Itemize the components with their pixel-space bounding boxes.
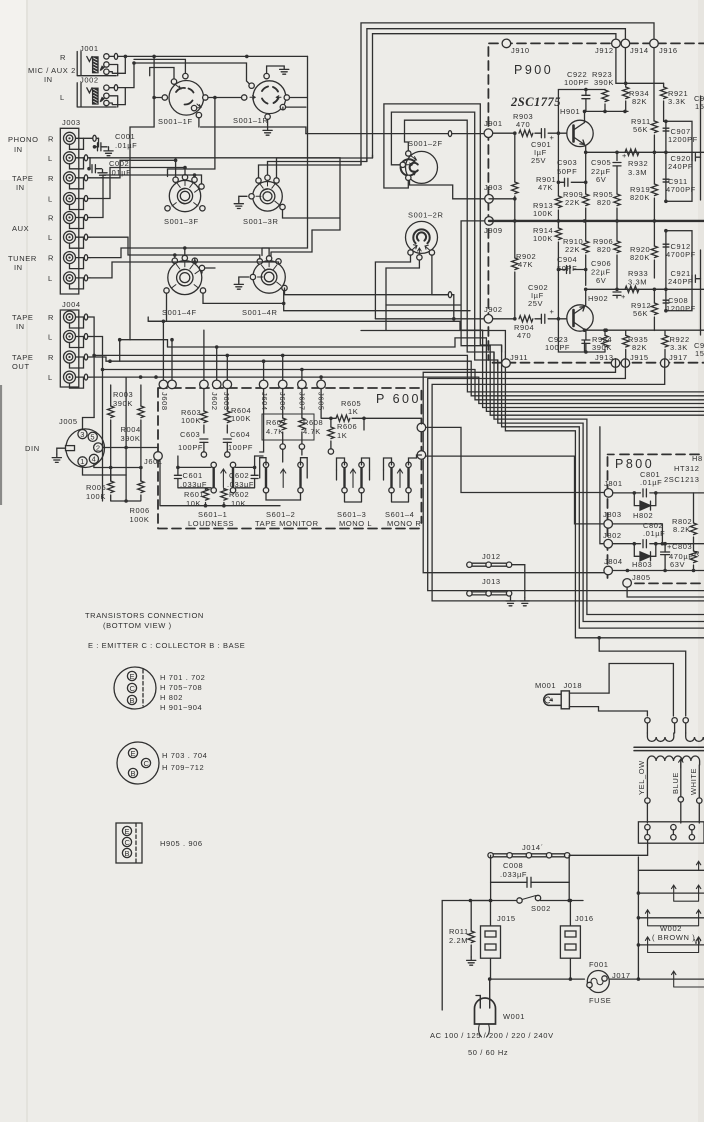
capacitor C802 bbox=[643, 540, 646, 548]
ground J012 bbox=[520, 598, 529, 606]
wire drop bbox=[320, 377, 322, 380]
wire bbox=[95, 138, 99, 147]
wire 1F bottom to J901 run bbox=[199, 107, 306, 134]
legend flat pin E bbox=[122, 826, 131, 835]
terminal P600 right lower bbox=[417, 451, 426, 460]
wire bbox=[178, 456, 263, 467]
J013 pin bbox=[467, 591, 472, 596]
S001-3R contact bbox=[256, 178, 261, 183]
jack J002 tip contact bbox=[104, 85, 109, 90]
wire J914 loop bbox=[367, 29, 626, 162]
jack contact oval bbox=[93, 135, 96, 141]
svg-text:S601–3: S601–3 bbox=[337, 510, 366, 519]
svg-text:5: 5 bbox=[90, 433, 95, 442]
wire 4R to ground bbox=[239, 277, 249, 281]
wire DIN pin1 bbox=[83, 466, 127, 475]
wire selector to J014 bbox=[569, 840, 647, 855]
svg-text:1200PF: 1200PF bbox=[666, 304, 696, 313]
svg-text:100K: 100K bbox=[231, 414, 251, 423]
wire bbox=[282, 432, 284, 444]
junction bbox=[176, 466, 180, 470]
junction bbox=[281, 354, 285, 358]
fuse contact bbox=[587, 982, 592, 987]
wire collector node bbox=[585, 111, 629, 122]
svg-text:H905 . 906: H905 . 906 bbox=[160, 839, 203, 848]
wire bbox=[535, 132, 541, 134]
wire drop to J608 bbox=[162, 321, 164, 380]
junction bbox=[597, 636, 601, 640]
svg-text:B: B bbox=[125, 849, 131, 858]
contact bbox=[192, 177, 197, 182]
switch wafer S601-2 a bbox=[265, 467, 267, 487]
svg-text:50PF: 50PF bbox=[557, 167, 577, 176]
svg-text:H 802: H 802 bbox=[160, 693, 183, 702]
wire bbox=[616, 166, 618, 194]
jack contact oval bbox=[84, 275, 87, 281]
S001-4F contact bbox=[172, 258, 177, 263]
wire strap row 1 bbox=[638, 869, 704, 871]
svg-text:BLUE: BLUE bbox=[671, 772, 680, 794]
terminal J911 bbox=[502, 359, 511, 368]
legend pin B bbox=[127, 695, 136, 704]
resistor R913 bbox=[555, 196, 561, 208]
connector J005 DIN circle bbox=[66, 429, 105, 468]
wire S001-2R mid bbox=[361, 260, 505, 352]
wire R006 leads bbox=[140, 468, 142, 501]
wire DIN pin2 to J601 bbox=[103, 447, 158, 449]
svg-text:TRANSISTORS CONNECTION: TRANSISTORS CONNECTION bbox=[85, 611, 204, 620]
capacitor C604 bbox=[223, 439, 231, 442]
svg-text:820: 820 bbox=[597, 245, 611, 254]
capacitor C001 bbox=[98, 143, 101, 151]
svg-text:L: L bbox=[48, 274, 53, 283]
junction bbox=[170, 338, 174, 342]
svg-text:E : EMITTER C : COLLECTOR: E : EMITTER C : COLLECTOR B : BASE bbox=[88, 641, 245, 650]
junction bbox=[93, 145, 97, 149]
S001-3F wiper arrows bbox=[172, 181, 199, 207]
wire bbox=[108, 146, 110, 149]
svg-text:3: 3 bbox=[80, 430, 85, 439]
capacitor C911 (on box left edge) bbox=[663, 179, 670, 180]
svg-text:2SC1213: 2SC1213 bbox=[664, 475, 699, 484]
wire drop bbox=[203, 330, 205, 380]
terminal J917 bbox=[660, 359, 669, 368]
resistor R602 bbox=[221, 489, 227, 501]
wire bbox=[585, 90, 587, 112]
svg-text:P900: P900 bbox=[514, 63, 553, 77]
svg-text:J912: J912 bbox=[595, 46, 614, 55]
wire bbox=[203, 442, 205, 452]
capacitor C901 bbox=[541, 129, 544, 138]
wire drop bbox=[171, 340, 173, 380]
contact bbox=[266, 256, 271, 261]
ground at C002 bbox=[98, 169, 107, 177]
svg-text:TAPE: TAPE bbox=[12, 174, 33, 183]
junction bbox=[664, 120, 668, 124]
S001-3F contact bbox=[173, 177, 178, 182]
svg-text:J804: J804 bbox=[604, 557, 623, 566]
wire bbox=[301, 388, 303, 418]
resistor R905 bbox=[614, 194, 620, 206]
svg-text:H902: H902 bbox=[588, 294, 608, 303]
RCA jack J003-1 bbox=[64, 132, 76, 144]
fuse F001 bbox=[587, 971, 609, 993]
RCA jack J003-7 bbox=[64, 252, 76, 264]
S001-2R contact bbox=[408, 250, 413, 255]
svg-text:82K: 82K bbox=[632, 97, 647, 106]
svg-text:J602: J602 bbox=[210, 392, 219, 411]
S001-2R wiper arrows bbox=[412, 245, 430, 254]
wire J801 bbox=[613, 492, 641, 494]
resistor R904 bbox=[519, 316, 533, 322]
wire emitter up bbox=[585, 289, 587, 306]
junction bbox=[193, 173, 197, 177]
wire jack ground arm bbox=[70, 357, 84, 368]
wire jack ground arm bbox=[70, 178, 84, 189]
wire S001-2R left bbox=[375, 255, 410, 319]
ground at S001-4R bbox=[234, 281, 243, 289]
wire bbox=[625, 330, 627, 358]
wire bus line bbox=[483, 330, 704, 407]
transformer core bbox=[634, 747, 704, 750]
wire bbox=[89, 158, 90, 169]
junction bbox=[300, 368, 304, 372]
svg-text:J015: J015 bbox=[497, 914, 516, 923]
wire bbox=[646, 830, 648, 835]
wire bbox=[470, 900, 516, 902]
wire J901 run bbox=[306, 133, 489, 135]
wire bus line to lower right bbox=[502, 345, 704, 628]
wire down to 3F bbox=[168, 98, 215, 177]
junction bbox=[162, 320, 166, 324]
wire bbox=[616, 221, 618, 289]
terminal J902 bbox=[484, 315, 493, 324]
wire J002 to S001-1R bbox=[118, 63, 250, 88]
wire jack stub bbox=[76, 336, 90, 338]
wire strap row 4 bbox=[638, 944, 704, 946]
jack contact oval bbox=[84, 234, 87, 240]
junction bbox=[108, 359, 112, 363]
svg-text:J913: J913 bbox=[595, 353, 614, 362]
svg-text:4: 4 bbox=[92, 455, 97, 464]
wire bbox=[664, 330, 666, 358]
wire DIN to ground bbox=[57, 448, 66, 454]
svg-text:LOUDNESS: LOUDNESS bbox=[188, 519, 234, 528]
wire J803 bbox=[613, 524, 663, 544]
legend pin E bbox=[128, 748, 137, 757]
resistor R903 bbox=[519, 130, 533, 136]
wire J902 run bbox=[375, 318, 488, 320]
capacitor C923 bbox=[582, 340, 590, 343]
wire jack stub bbox=[76, 277, 90, 279]
jack J001 contact bbox=[104, 62, 109, 67]
connector J013 bbox=[472, 592, 508, 595]
wire bbox=[664, 544, 666, 571]
wire bbox=[125, 448, 127, 502]
svg-text:R004: R004 bbox=[121, 425, 141, 434]
oval on J901 wire bbox=[448, 131, 451, 137]
wire bbox=[625, 101, 627, 111]
resistor R934 bbox=[623, 87, 629, 99]
junction bbox=[489, 899, 493, 903]
contact bbox=[199, 265, 204, 270]
plug cord bbox=[479, 1024, 490, 1037]
svg-text:J915: J915 bbox=[630, 353, 649, 362]
wire S001-2R right bbox=[432, 255, 447, 295]
svg-text:50 / 60 Hz: 50 / 60 Hz bbox=[468, 1048, 508, 1057]
terminal P600 top bbox=[159, 380, 168, 389]
wire bus line to lower right bbox=[498, 360, 704, 622]
wire into selector bbox=[647, 802, 699, 823]
selector contact bottom bbox=[671, 835, 676, 840]
svg-text:L: L bbox=[48, 195, 53, 204]
junction bbox=[557, 317, 561, 321]
wire J802 bbox=[613, 543, 641, 545]
wire to J803 bbox=[426, 456, 604, 524]
svg-text:J803: J803 bbox=[603, 510, 622, 519]
wire bbox=[493, 132, 513, 134]
wire jack ground arm bbox=[70, 337, 84, 348]
svg-text:47K: 47K bbox=[518, 260, 533, 269]
wire bbox=[321, 388, 336, 418]
junction bbox=[118, 338, 122, 342]
switch wafer S601-4 a bbox=[390, 467, 392, 487]
wire selector left vertical bbox=[637, 857, 639, 979]
wire to 3F corner contact bbox=[195, 175, 202, 184]
junction bbox=[329, 417, 333, 421]
wire bus line bbox=[479, 377, 704, 403]
wire lamp leads bbox=[569, 693, 647, 716]
svg-text:25V: 25V bbox=[528, 299, 543, 308]
svg-text:22K: 22K bbox=[565, 198, 580, 207]
P900 dashed bottom bbox=[493, 362, 704, 364]
wire output bottom bbox=[617, 288, 704, 290]
junction bbox=[124, 55, 128, 59]
contact bbox=[200, 288, 205, 293]
svg-text:390K: 390K bbox=[594, 78, 614, 87]
wire bbox=[558, 269, 566, 271]
wire base up to C904 bbox=[557, 270, 559, 319]
connector J004 outline bbox=[60, 310, 79, 387]
RCA jack J003-2 bbox=[64, 152, 76, 164]
resistor R914 bbox=[555, 228, 561, 240]
S601-3 arrow bbox=[350, 469, 355, 488]
terminal yellow bbox=[645, 798, 650, 803]
junction bbox=[637, 943, 641, 947]
svg-text:J802: J802 bbox=[603, 531, 622, 540]
terminal J914 bbox=[621, 39, 630, 48]
terminal J910 bbox=[502, 39, 511, 48]
wire bbox=[330, 418, 332, 449]
terminal J802 bbox=[604, 539, 613, 548]
capacitor C905 bbox=[613, 163, 621, 166]
junction bbox=[132, 61, 136, 65]
svg-text:FUSE: FUSE bbox=[589, 996, 611, 1005]
svg-text:4700PF: 4700PF bbox=[666, 185, 696, 194]
capacitor C803 electrolytic bbox=[661, 552, 670, 555]
svg-text:P 600: P 600 bbox=[376, 392, 421, 406]
wire TAPE OUT R run bbox=[90, 357, 471, 361]
wire bbox=[585, 221, 587, 286]
wire 1F TL contact bbox=[150, 68, 174, 79]
svg-text:15: 15 bbox=[695, 102, 704, 111]
svg-text:100K: 100K bbox=[533, 209, 553, 218]
svg-text:J917: J917 bbox=[669, 353, 688, 362]
wire bbox=[470, 945, 472, 957]
resistor R606 bbox=[328, 427, 334, 439]
rotary switch S001-1R bbox=[253, 81, 286, 114]
wire S601-4 hooks bbox=[384, 455, 422, 470]
rotary switch S001-3F bbox=[169, 180, 200, 211]
wire R005 leads bbox=[110, 468, 112, 501]
svg-text:10K: 10K bbox=[231, 499, 246, 508]
svg-text:J014´: J014´ bbox=[522, 843, 544, 852]
jack contact oval bbox=[84, 255, 87, 261]
terminal J606 bbox=[278, 380, 287, 389]
svg-text:R: R bbox=[48, 134, 54, 143]
jack J002 switch arm bbox=[100, 98, 104, 102]
svg-text:390K: 390K bbox=[113, 399, 133, 408]
contact bbox=[276, 259, 281, 264]
svg-text:J002: J002 bbox=[80, 75, 99, 84]
resistor R802 bbox=[690, 523, 696, 535]
svg-text:J901: J901 bbox=[484, 119, 503, 128]
junction bbox=[215, 345, 219, 349]
box around R607/R608 bbox=[262, 414, 314, 440]
svg-text:C904: C904 bbox=[557, 255, 577, 264]
svg-text:S001–1F: S001–1F bbox=[158, 117, 193, 126]
svg-text:MONO L: MONO L bbox=[339, 519, 372, 528]
junction bbox=[637, 977, 641, 981]
svg-text:PHONO: PHONO bbox=[8, 135, 39, 144]
wire to transformer bbox=[609, 664, 673, 717]
resistor R803x bbox=[690, 551, 696, 563]
svg-text:E: E bbox=[130, 672, 136, 681]
wire left branch bbox=[442, 901, 470, 1011]
contact bbox=[299, 444, 304, 449]
svg-text:C604: C604 bbox=[230, 430, 250, 439]
wire J001 to S001-1F bbox=[118, 55, 308, 57]
wire drop bbox=[282, 355, 284, 380]
transformer top winding 1 bbox=[647, 733, 673, 741]
junction bbox=[664, 229, 668, 233]
contact bbox=[400, 162, 405, 167]
J012 pin bbox=[506, 562, 511, 567]
connector J014 bbox=[489, 854, 570, 857]
S001-4F wiper arrows bbox=[172, 262, 200, 289]
wire bbox=[337, 470, 370, 480]
resistor R601 bbox=[202, 489, 208, 501]
wire jack stub bbox=[76, 157, 90, 159]
wire bbox=[604, 104, 606, 111]
svg-text:H802: H802 bbox=[633, 511, 653, 520]
connector J003 outline bbox=[60, 128, 79, 294]
DIN key notch bbox=[66, 446, 75, 451]
wire J909 run bbox=[386, 221, 490, 346]
wire bbox=[584, 341, 586, 353]
S001-1R contact BR bbox=[280, 104, 285, 109]
wire jack stub bbox=[76, 198, 90, 200]
svg-text:J914: J914 bbox=[630, 46, 649, 55]
wire jack stub bbox=[76, 217, 90, 219]
wire bbox=[625, 83, 627, 87]
svg-text:S601–2: S601–2 bbox=[266, 510, 295, 519]
svg-text:L: L bbox=[48, 154, 53, 163]
svg-text:HT312: HT312 bbox=[674, 464, 700, 473]
resistor R902 bbox=[512, 258, 518, 270]
contact bbox=[165, 206, 170, 211]
selector contact top bbox=[689, 825, 694, 830]
wire DIN pin3 up bbox=[83, 418, 95, 430]
resistor R005 bbox=[108, 481, 114, 493]
junction bbox=[584, 151, 588, 155]
wire jack stub bbox=[76, 177, 90, 179]
svg-text:H803: H803 bbox=[632, 560, 652, 569]
wire J805 down right bbox=[627, 587, 704, 597]
svg-text:L: L bbox=[48, 333, 53, 342]
svg-text:25V: 25V bbox=[531, 156, 546, 165]
junction bbox=[101, 368, 105, 372]
fuse contact bbox=[602, 976, 607, 981]
J013 pin bbox=[486, 591, 491, 596]
svg-text:E: E bbox=[131, 749, 137, 758]
contact bbox=[201, 452, 206, 457]
wire TAPE IN L run bbox=[90, 337, 475, 502]
jack J001 tip contact bbox=[104, 54, 109, 59]
junction bbox=[513, 219, 517, 223]
junction bbox=[262, 359, 266, 363]
junction bbox=[583, 328, 587, 332]
selector contact bottom bbox=[689, 835, 694, 840]
junction bbox=[222, 504, 226, 508]
junction bbox=[319, 375, 323, 379]
svg-text:IN: IN bbox=[16, 322, 25, 331]
RCA jack J003-8 bbox=[64, 272, 76, 284]
svg-text:R: R bbox=[48, 174, 54, 183]
junction bbox=[663, 569, 667, 573]
junction bbox=[603, 110, 607, 114]
contact bbox=[225, 452, 230, 457]
junction bbox=[624, 82, 628, 86]
strap arrows row3 bbox=[645, 910, 700, 926]
svg-text:WHITE: WHITE bbox=[689, 768, 698, 795]
junction bbox=[661, 542, 665, 546]
wire bbox=[470, 882, 569, 900]
wire bus line to lower right bbox=[494, 352, 704, 615]
junction bbox=[152, 96, 156, 100]
wire S601-3 bottoms bbox=[345, 493, 362, 502]
terminal J804 bbox=[604, 566, 613, 575]
svg-text:YEL_OW: YEL_OW bbox=[637, 760, 646, 795]
svg-text:R602: R602 bbox=[229, 490, 249, 499]
svg-text:.033µF: .033µF bbox=[500, 870, 527, 879]
svg-text:L: L bbox=[48, 373, 53, 382]
junction bbox=[584, 268, 588, 272]
jack contact oval bbox=[84, 196, 87, 202]
legend TO-92 round case 1 bbox=[114, 667, 156, 709]
ground at S001-3R bbox=[234, 200, 243, 208]
junction bbox=[603, 328, 607, 332]
svg-text:H 901~904: H 901~904 bbox=[160, 703, 202, 712]
svg-text:J916: J916 bbox=[659, 46, 678, 55]
RCA jack J003-3 bbox=[64, 172, 76, 184]
svg-text:S001–3R: S001–3R bbox=[243, 217, 278, 226]
S001-1F contact right bbox=[203, 95, 208, 100]
wire PHONO L run and 3R contact bbox=[90, 158, 340, 230]
svg-text:R: R bbox=[48, 313, 54, 322]
capacitor C912 (on box left edge) bbox=[663, 244, 670, 245]
S001-1F contact BR bbox=[191, 105, 196, 110]
